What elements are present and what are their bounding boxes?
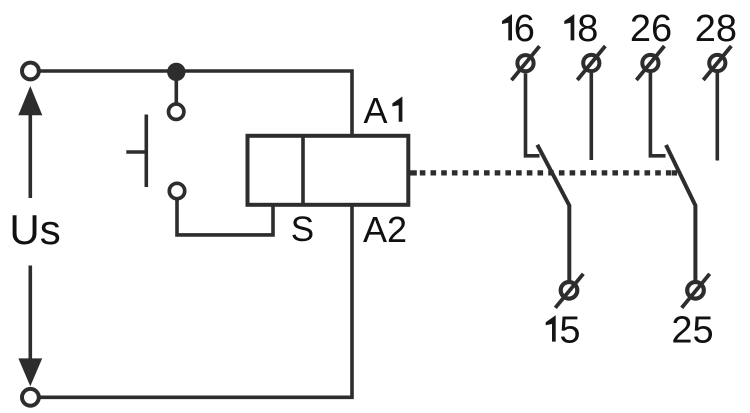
svg-text:A: A xyxy=(364,90,388,131)
svg-text:S: S xyxy=(291,210,314,249)
svg-text:6: 6 xyxy=(514,8,535,50)
svg-text:25: 25 xyxy=(671,309,713,351)
svg-text:8: 8 xyxy=(577,8,598,50)
svg-text:28: 28 xyxy=(695,8,737,50)
svg-text:5: 5 xyxy=(559,309,580,351)
svg-text:Us: Us xyxy=(9,206,60,253)
svg-text:26: 26 xyxy=(630,8,672,50)
svg-text:A2: A2 xyxy=(363,209,407,250)
